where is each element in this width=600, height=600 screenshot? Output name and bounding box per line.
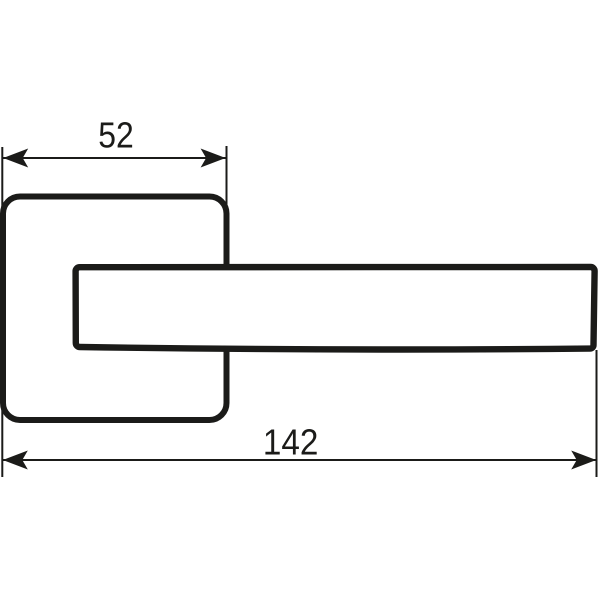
dimension line 52 bbox=[3, 157, 226, 159]
svg-text:142: 142 bbox=[263, 422, 319, 463]
extension line right of square (for 52 dim) bbox=[226, 146, 228, 260]
square rose plate bbox=[3, 197, 227, 421]
arrowhead right (52) bbox=[201, 149, 226, 168]
extension line left (x=2, top dim to bottom dim) bbox=[1, 147, 3, 477]
arrowhead left (142) bbox=[3, 451, 28, 470]
dimension line 142 bbox=[3, 459, 596, 461]
arrowhead right (142) bbox=[571, 451, 596, 470]
lever handle (neck + grip), drawn over the square edge bbox=[76, 267, 595, 350]
extension line right of lever (for 142 dim) bbox=[596, 350, 598, 477]
svg-text:52: 52 bbox=[98, 115, 134, 156]
arrowhead left (52) bbox=[3, 149, 28, 168]
